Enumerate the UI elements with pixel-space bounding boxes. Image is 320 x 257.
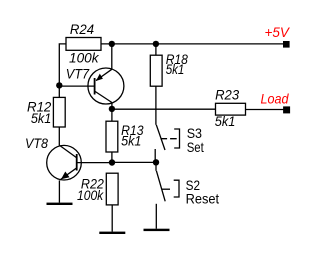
svg-text:Load: Load	[261, 91, 290, 107]
terminal +5V	[283, 41, 290, 48]
svg-text:5k1: 5k1	[215, 113, 236, 129]
transistor VT8 (NPN)	[47, 145, 82, 180]
junction node D: S3 / S2	[153, 159, 159, 165]
wire: VT7 base to left column node A	[59, 85, 94, 87]
wire: R13 top lead	[111, 109, 113, 121]
junction node: R24 right / VT7 emitter	[109, 41, 115, 47]
svg-text:VT7: VT7	[66, 66, 90, 82]
svg-text:Reset: Reset	[186, 191, 220, 207]
wire: VT8 emitter to ground	[58, 180, 60, 202]
resistor R22	[106, 173, 118, 205]
wire: R23 right to Load terminal	[246, 109, 284, 111]
svg-text:Set: Set	[187, 139, 204, 155]
resistor R13	[106, 121, 118, 152]
terminal Load	[283, 106, 290, 113]
ground (S2)	[144, 229, 170, 231]
junction node A: left column / VT7 base	[56, 82, 62, 88]
junction node: rail / R18 top	[153, 41, 159, 47]
resistor R24	[66, 38, 101, 51]
junction node C: R13 / R22 / VT8 base	[109, 159, 115, 165]
wire: R18 top to rail	[155, 44, 157, 55]
wire: +5V rail from R24 to +5V terminal	[101, 43, 284, 45]
svg-text:5k1: 5k1	[121, 132, 141, 148]
wire: VT7 emitter to rail	[111, 44, 113, 69]
transistor VT7 (PNP)	[88, 68, 124, 104]
svg-text:R24: R24	[70, 21, 94, 37]
wire: VT8 base to node C	[77, 162, 112, 164]
wire: node B to R23 left	[112, 108, 216, 110]
svg-text:+5V: +5V	[265, 24, 291, 40]
wire: node C to node D (S3/S2 junction)	[112, 161, 156, 163]
svg-text:100k: 100k	[77, 187, 104, 203]
svg-text:100k: 100k	[69, 50, 99, 66]
ground (VT8 emitter)	[47, 203, 73, 205]
svg-text:VT8: VT8	[25, 135, 48, 151]
svg-text:5k1: 5k1	[166, 61, 185, 77]
wire: R18 bottom to S3 top contact	[155, 86, 157, 125]
resistor R23	[216, 103, 246, 115]
pushbutton S2	[156, 162, 179, 228]
svg-text:5k1: 5k1	[31, 110, 51, 126]
svg-text:R23: R23	[215, 86, 239, 102]
pushbutton S3	[155, 125, 179, 163]
junction node B: VT7 collector / R13 top	[109, 106, 115, 112]
ground (R22)	[99, 232, 125, 234]
resistor R18	[150, 55, 162, 86]
wire: +5V rail left stub to R24	[59, 44, 66, 98]
wire: VT7 collector to node B	[111, 103, 113, 110]
wire: R13 bottom lead	[111, 152, 113, 163]
resistor R12	[53, 97, 65, 127]
wire: R22 bottom to ground	[111, 205, 113, 232]
wire: left column R12 bottom to VT8 collector	[58, 127, 60, 146]
